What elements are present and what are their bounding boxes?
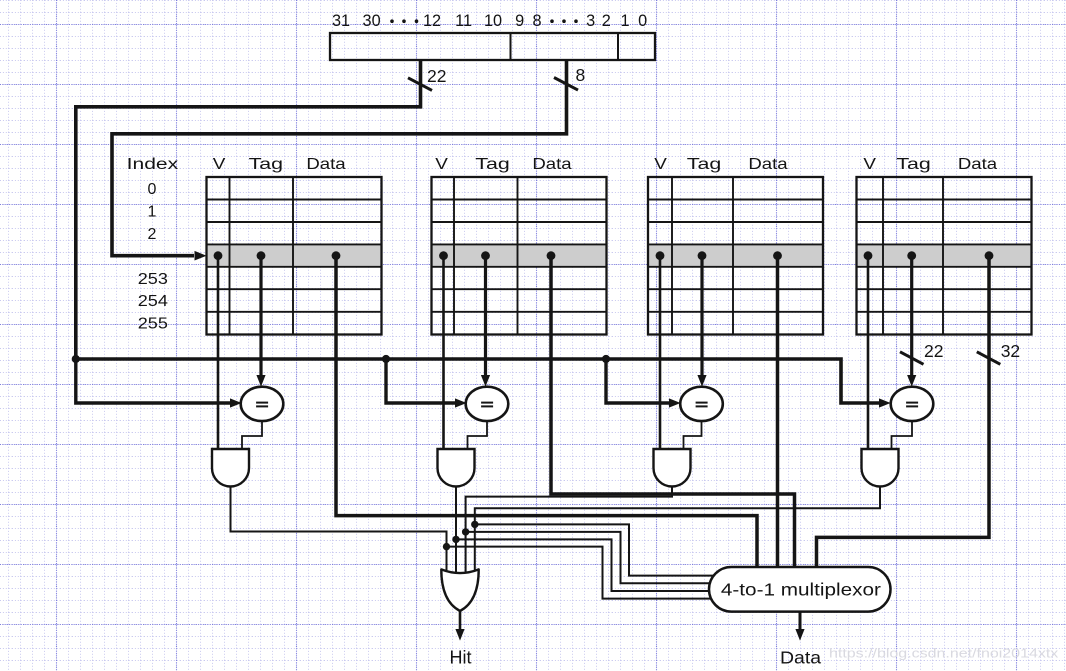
AND gate 2 — [438, 449, 475, 487]
svg-text:Data: Data — [780, 647, 822, 667]
wire AND2 select branch — [456, 539, 716, 591]
svg-text:2: 2 — [148, 226, 157, 243]
svg-text:12: 12 — [423, 12, 441, 30]
slash 22 at table 4 tag — [900, 352, 924, 365]
wire V1 — [217, 256, 220, 452]
wire AND1 select branch — [447, 547, 717, 599]
wire AND3 out — [466, 487, 672, 579]
arrowhead bus into comparator 1 — [230, 398, 242, 407]
address bit labels — [332, 12, 647, 30]
junction dot bus-comp1 — [72, 355, 80, 363]
svg-text:1: 1 — [620, 12, 629, 30]
wire Hit output — [459, 611, 462, 629]
wire Data1 — [336, 256, 757, 580]
svg-text:9: 9 — [515, 12, 524, 30]
svg-text:V: V — [435, 155, 448, 173]
arrowhead bus into comparator 3 — [669, 398, 681, 407]
junction dot AND1 branch — [443, 543, 450, 550]
row select dots gray row — [214, 251, 994, 260]
svg-text:32: 32 — [1001, 341, 1020, 361]
wire V2 — [442, 256, 445, 452]
wire Data4 — [817, 256, 990, 580]
wire V3 — [659, 256, 662, 452]
wire comp2 out — [468, 419, 488, 452]
index row numbers — [138, 181, 168, 333]
comparator 1 — [241, 387, 284, 421]
junction dot AND3 branch — [462, 528, 469, 535]
AND gate 4 — [862, 449, 899, 487]
svg-text:Index: Index — [127, 155, 179, 173]
svg-text:Data: Data — [958, 155, 998, 172]
wire AND1 out — [231, 487, 447, 579]
table way 1 — [207, 177, 382, 335]
arrowhead tag3 into comparator 3 — [697, 375, 706, 387]
table way 2 — [432, 177, 607, 335]
wire AND4 out — [475, 487, 880, 579]
svg-text:V: V — [863, 155, 876, 173]
AND gate 3 — [654, 449, 691, 487]
svg-text:253: 253 — [138, 270, 168, 288]
table way 4 — [857, 177, 1032, 335]
svg-text:11: 11 — [455, 12, 472, 30]
wire Tag4 — [910, 256, 913, 376]
svg-text:22: 22 — [427, 66, 446, 86]
arrowhead tag1 into comparator 1 — [256, 375, 265, 387]
svg-text:8: 8 — [576, 65, 586, 85]
wire: comparator 3 feed — [606, 359, 670, 403]
4-to-1 multiplexor — [709, 567, 891, 612]
wire Tag2 — [484, 256, 487, 376]
wire: comparator 1 feed — [76, 359, 231, 403]
wire: tag field from address down-left and bus to comparators — [76, 60, 879, 403]
junction dot AND2 branch — [452, 536, 459, 543]
svg-text:4-to-1 multiplexor: 4-to-1 multiplexor — [721, 581, 882, 600]
arrowhead Hit — [455, 629, 464, 641]
arrowhead Data — [795, 629, 804, 641]
junction dot AND4 branch — [471, 521, 478, 528]
wire: index field from address to table row — [112, 60, 567, 256]
svg-text:22: 22 — [924, 341, 943, 361]
svg-text:Hit: Hit — [450, 648, 472, 668]
arrowhead tag4 into comparator 4 — [907, 375, 916, 387]
svg-text:V: V — [654, 155, 667, 173]
address box — [330, 33, 655, 60]
arrowhead tag2 into comparator 2 — [481, 375, 490, 387]
arrowhead bus into comparator 2 — [455, 398, 467, 407]
wire Tag3 — [700, 256, 703, 376]
table way 3 — [648, 177, 823, 335]
comparator 3 — [680, 387, 723, 421]
svg-text:Data: Data — [748, 155, 788, 172]
svg-text:3: 3 — [586, 12, 595, 30]
wire Tag1 — [259, 256, 262, 376]
arrowhead index into table 1 — [195, 251, 207, 261]
comparator 2 — [466, 387, 509, 421]
wire AND2 out — [455, 487, 457, 579]
arrowhead bus into comparator 4 — [879, 398, 891, 407]
junction dot bus-comp3 — [602, 355, 610, 363]
svg-text:10: 10 — [484, 12, 502, 30]
junction dot bus-comp2 — [382, 355, 390, 363]
svg-text:V: V — [213, 155, 226, 173]
slash 22 (tag width) — [408, 78, 432, 91]
svg-text:Tag: Tag — [249, 155, 283, 172]
svg-text:0: 0 — [638, 12, 647, 30]
wire comp3 out — [684, 419, 702, 452]
svg-text:Tag: Tag — [687, 155, 721, 172]
OR gate — [441, 569, 478, 611]
wire comp4 out — [892, 419, 913, 452]
wire Data output — [799, 612, 802, 630]
comparator 4 — [891, 387, 934, 421]
svg-text:Tag: Tag — [896, 155, 930, 172]
table headers — [127, 155, 998, 173]
wire AND4 select branch — [475, 524, 716, 575]
svg-text:1: 1 — [148, 203, 157, 220]
svg-text:Tag: Tag — [475, 155, 509, 172]
svg-text:8: 8 — [532, 12, 541, 30]
wire V4 — [867, 256, 870, 452]
wire Data3 — [776, 256, 780, 580]
wire comp1 out — [242, 419, 262, 452]
svg-text:2: 2 — [602, 12, 611, 30]
slash 32 at table 4 data — [977, 352, 1001, 365]
svg-text:Data: Data — [532, 155, 572, 172]
wire AND3 select branch — [466, 532, 716, 583]
svg-text:30: 30 — [363, 12, 381, 30]
svg-text:0: 0 — [148, 181, 157, 198]
AND gate 1 — [212, 449, 249, 487]
svg-text:254: 254 — [138, 292, 168, 310]
svg-text:31: 31 — [332, 12, 350, 30]
svg-text:https://blog.csdn.net/fnoi2014: https://blog.csdn.net/fnoi2014xtx — [829, 647, 1059, 661]
svg-text:Data: Data — [306, 155, 346, 172]
svg-text:255: 255 — [138, 315, 168, 333]
wire: comparator 2 feed — [386, 359, 456, 403]
slash 8 (index width) — [554, 78, 578, 91]
wire Data2 — [551, 256, 795, 580]
